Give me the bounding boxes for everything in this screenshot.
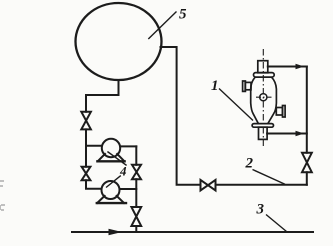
svg-text:1: 1 (211, 78, 219, 94)
svg-text:3: 3 (256, 202, 265, 218)
svg-text:5: 5 (179, 7, 187, 23)
svg-text:2: 2 (245, 156, 254, 172)
svg-text:4: 4 (119, 164, 127, 179)
